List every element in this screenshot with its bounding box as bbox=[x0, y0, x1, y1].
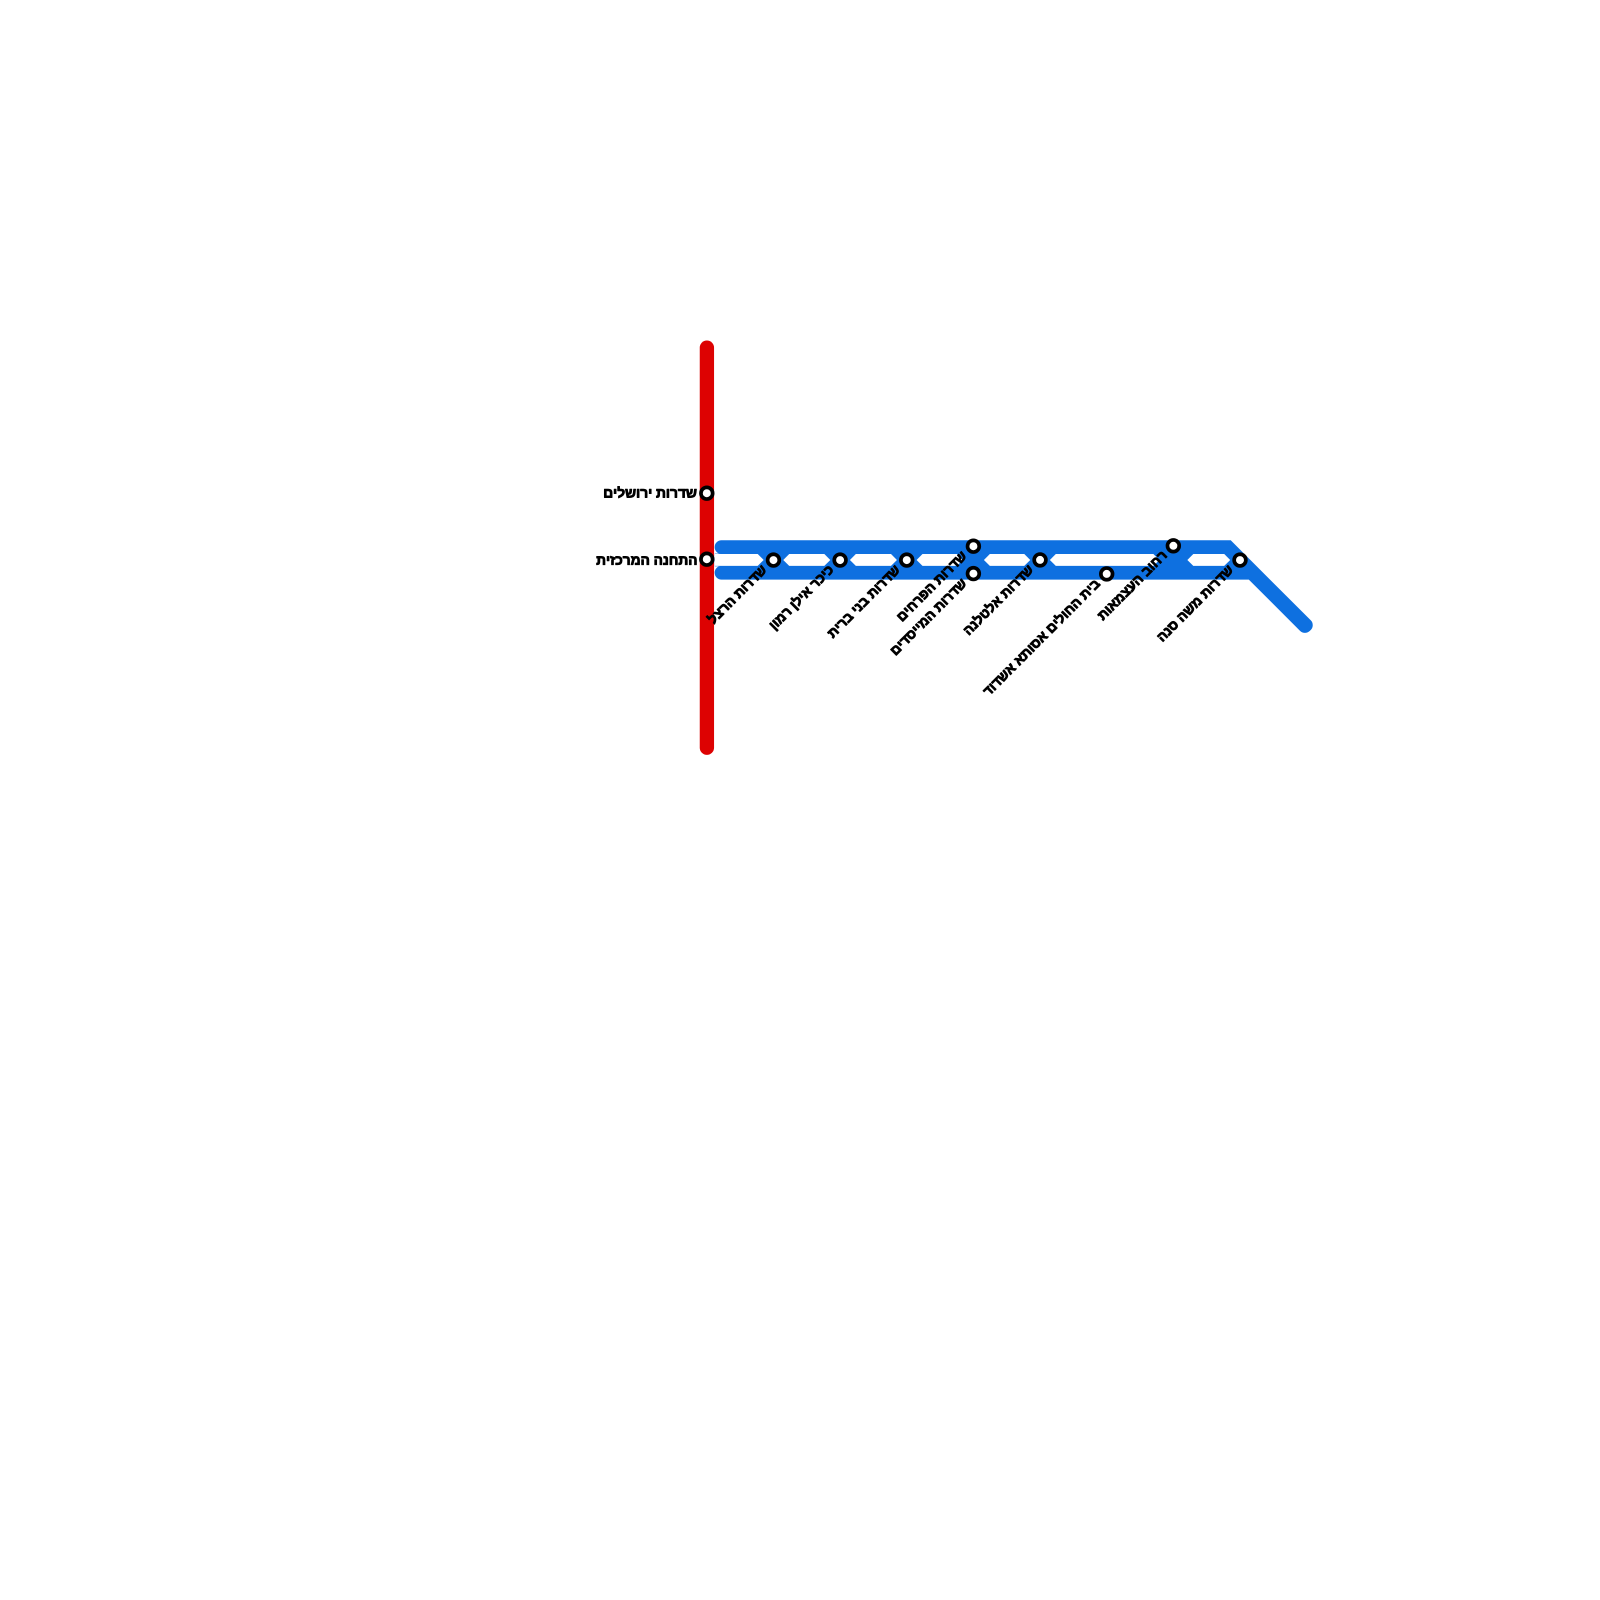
red line M1 (vertical trunk) bbox=[700, 348, 714, 748]
white gap segment 2 bbox=[850, 554, 897, 566]
label sderot-bnei-brit bbox=[827, 565, 900, 638]
white gap segment 1 bbox=[783, 554, 830, 566]
label rehov-haatzmaut bbox=[1097, 551, 1167, 621]
station sderot-herzl bbox=[768, 554, 780, 566]
station hatachana-hamerkazit (interchange) bbox=[701, 553, 713, 565]
white gap segment 6 bbox=[1187, 554, 1230, 566]
label kikar-ilan-ramon bbox=[768, 563, 836, 631]
white gap segment 4 bbox=[984, 554, 1030, 566]
blue line M2 upper track bbox=[722, 547, 1306, 625]
station sderot-bnei-brit bbox=[901, 554, 913, 566]
station sderot-hameyasdim bbox=[968, 568, 980, 580]
label sderot-altalena bbox=[962, 563, 1034, 635]
blue line M2 lower track bbox=[722, 573, 1305, 626]
label sderot-hameyasdim bbox=[891, 579, 968, 656]
label assuta-hospital bbox=[981, 577, 1101, 697]
white gap segment 5 bbox=[1050, 554, 1160, 566]
label sderot-haprachim bbox=[897, 551, 967, 621]
white gap segment 3 bbox=[917, 554, 963, 566]
label sderot-moshe-sneh bbox=[1157, 565, 1234, 642]
station sderot-moshe-sneh bbox=[1234, 554, 1246, 566]
station kikar-ilan-ramon bbox=[834, 554, 846, 566]
label hatachana-hamerkazit bbox=[597, 556, 697, 565]
station sderot-haprachim bbox=[968, 540, 980, 552]
blue line M2 middle band bbox=[715, 554, 1239, 567]
station assuta-hospital bbox=[1101, 568, 1113, 580]
white gap segment 0 bbox=[715, 554, 764, 566]
label sderot-herzl bbox=[706, 563, 767, 624]
station sderot-yerushalayim bbox=[701, 487, 713, 499]
station rehov-haatzmaut bbox=[1168, 540, 1180, 552]
label sderot-yerushalayim bbox=[604, 486, 696, 498]
station sderot-altalena bbox=[1034, 554, 1046, 566]
